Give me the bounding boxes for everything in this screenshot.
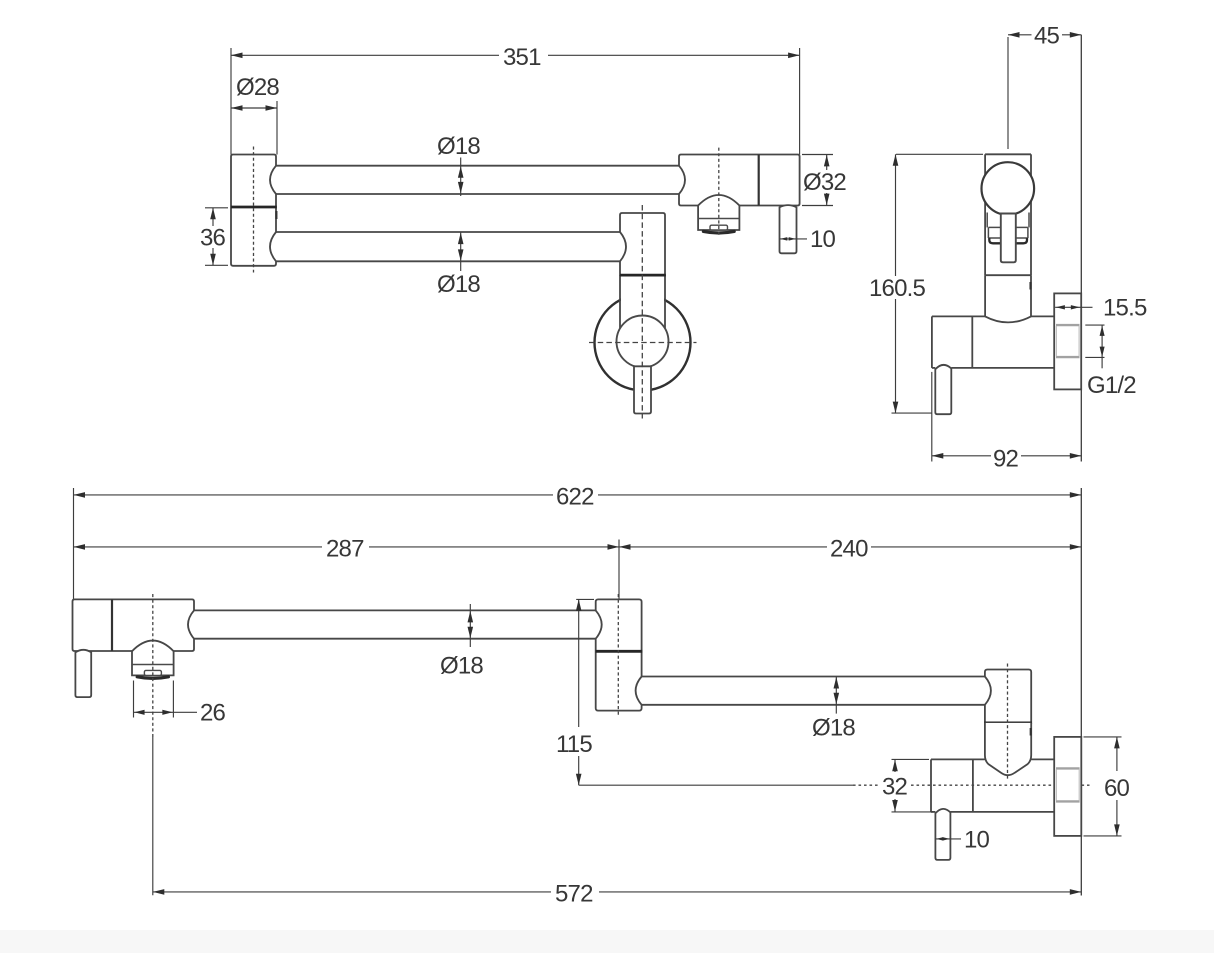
wall flange (front view) xyxy=(1054,737,1081,836)
svg-text:92: 92 xyxy=(993,446,1019,473)
dim 45 line xyxy=(1008,34,1081,36)
dim 60 line xyxy=(1116,737,1118,836)
dim Ø18 (lower arm) arrow xyxy=(835,677,837,714)
cartridge housing lines xyxy=(987,213,1029,228)
svg-text:Ø18: Ø18 xyxy=(440,653,483,680)
dim 10 line with leader xyxy=(780,238,808,240)
dim 45 arrows xyxy=(1008,32,1020,38)
dim 115 extension top xyxy=(576,598,594,600)
dim Ø18 upper arrow xyxy=(460,158,462,197)
svg-text:160.5: 160.5 xyxy=(869,275,926,302)
flange crosshair vertical xyxy=(641,205,643,419)
svg-text:351: 351 xyxy=(503,44,541,71)
right block centerline xyxy=(1007,664,1009,780)
valve connector shield xyxy=(985,723,1031,775)
lever collar dark base xyxy=(989,238,1000,243)
svg-text:G1/2: G1/2 xyxy=(1087,372,1136,399)
valve centerline horizontal (solid part) xyxy=(579,784,853,786)
svg-text:10: 10 xyxy=(964,827,990,854)
right block joint line (thick) xyxy=(984,722,1031,725)
dim 15.5 line with leader xyxy=(1055,306,1092,308)
outlet stub (side view) xyxy=(935,365,951,414)
flange crosshair horizontal xyxy=(589,342,697,344)
wall elbow block (top view) xyxy=(620,213,665,275)
left block centerline xyxy=(253,147,255,273)
svg-text:115: 115 xyxy=(556,731,592,758)
dim 622 extension left xyxy=(73,488,75,599)
bottom page grey strip xyxy=(0,930,1214,953)
spout head block (front view) xyxy=(73,599,195,651)
dim Ø32 arrows xyxy=(824,155,830,167)
dim Ø32 line xyxy=(826,155,828,206)
left swivel block xyxy=(231,155,276,266)
right block cap line xyxy=(758,155,760,206)
dim 572 line xyxy=(153,891,1082,893)
left block joint line (thick) xyxy=(231,206,277,209)
dim 26 arrows xyxy=(134,710,144,715)
wall flange (side view) xyxy=(1054,293,1081,389)
flange inner circle xyxy=(617,316,669,368)
right swivel block (front view) xyxy=(985,670,1031,723)
handle stem (top view) xyxy=(634,366,651,413)
dim 351 extension left xyxy=(230,48,232,155)
svg-text:Ø18: Ø18 xyxy=(437,133,480,160)
dim 115 arrows xyxy=(576,599,582,611)
extension to 572 xyxy=(152,737,154,895)
dim 622 line xyxy=(74,494,1082,496)
dim 240 line xyxy=(619,546,1081,548)
nozzle aerator dark band xyxy=(703,231,734,233)
dim 45 extension (body centerline) xyxy=(1007,37,1009,149)
dim 10 arrows xyxy=(780,237,787,240)
dim 32 line xyxy=(894,759,896,812)
spout nozzle (top view) xyxy=(698,195,739,230)
dim 622 arrows xyxy=(74,492,86,498)
svg-text:45: 45 xyxy=(1034,23,1060,50)
dim Ø18 lower arrow xyxy=(460,232,462,271)
svg-text:Ø32: Ø32 xyxy=(803,169,846,196)
dim 287 line xyxy=(74,546,620,548)
svg-text:60: 60 xyxy=(1104,775,1130,802)
middle elbow block (front view) xyxy=(596,599,642,710)
nozzle tab xyxy=(710,225,728,230)
dim 160.5 line xyxy=(895,154,897,413)
dim 36 line xyxy=(212,208,214,265)
body chamfer arc to valve xyxy=(985,316,1031,322)
nozzle ring line xyxy=(132,664,174,666)
svg-text:622: 622 xyxy=(556,484,594,511)
svg-text:Ø28: Ø28 xyxy=(236,74,279,101)
right block centerline xyxy=(718,148,720,237)
upper arm (front view) xyxy=(194,610,596,638)
wall line xyxy=(1080,35,1082,294)
svg-text:Ø18: Ø18 xyxy=(437,271,480,298)
body edge tick xyxy=(1029,282,1031,290)
nozzle ring line xyxy=(698,218,739,220)
wall line (front view) xyxy=(1080,488,1082,737)
valve body (front view) xyxy=(931,759,1054,812)
dim 160.5 extension top xyxy=(896,153,983,155)
dim 92 arrows xyxy=(932,453,944,459)
dim 60 extension lines xyxy=(1084,737,1122,836)
dim 92 extension left xyxy=(931,372,933,462)
dim 572 arrows xyxy=(153,889,165,895)
svg-text:Ø18: Ø18 xyxy=(812,715,855,742)
dim G1/2 extension lines xyxy=(1085,325,1104,357)
dim 160.5 arrows xyxy=(893,154,899,166)
lever pin (top view) xyxy=(780,205,797,253)
svg-text:287: 287 xyxy=(326,536,364,563)
dim 32 extension lines xyxy=(892,759,934,812)
dim 60 arrows xyxy=(1114,737,1120,749)
dim 351 line xyxy=(231,54,800,56)
dim 10 line with leader (front view) xyxy=(935,838,961,840)
dim G1/2 arrows xyxy=(1100,326,1105,336)
dim 92 line xyxy=(932,455,1082,457)
wall flange outer circle xyxy=(595,295,691,391)
svg-text:32: 32 xyxy=(882,774,908,801)
valve centerline horizontal (dotted) xyxy=(853,784,879,786)
spout nozzle (front view) xyxy=(132,641,174,676)
dim G1/2 line xyxy=(1101,325,1103,368)
dim Ø32 extension lines xyxy=(802,155,833,206)
svg-text:26: 26 xyxy=(200,700,226,727)
swivel ball (side view) xyxy=(982,162,1035,215)
dim Ø28 line xyxy=(231,107,277,109)
dim 15.5 arrows xyxy=(1056,305,1065,309)
elbow body over flange xyxy=(621,275,664,328)
middle block joint line (thick) xyxy=(596,650,643,653)
right spout head block xyxy=(679,155,800,206)
dim Ø18 (upper arm) arrow xyxy=(469,604,471,647)
nozzle tab xyxy=(144,670,161,675)
dim 240 arrows xyxy=(619,544,631,550)
outlet stub (front view) xyxy=(935,809,950,860)
upper arm tube xyxy=(276,166,679,194)
dim 115 line xyxy=(578,599,580,785)
lever collar xyxy=(988,227,1028,238)
dim 287 arrows xyxy=(74,544,86,550)
valve body (side view) xyxy=(932,316,1054,368)
dim 26 line with leader xyxy=(134,711,198,713)
head block cap line xyxy=(111,599,113,651)
dim 351 extension right xyxy=(799,48,801,155)
dim 351 arrows xyxy=(231,53,243,59)
dim 26 extension lines xyxy=(134,681,174,718)
dim Ø28 arrows xyxy=(231,105,243,111)
right block edge tick xyxy=(1030,728,1032,736)
svg-text:572: 572 xyxy=(555,881,593,908)
dim Ø28 extension right xyxy=(276,101,278,155)
flange thread lines (front view) xyxy=(1056,768,1080,801)
faucet body (side view) xyxy=(985,154,1031,316)
elbow joint line (thick) xyxy=(620,274,666,277)
svg-text:36: 36 xyxy=(200,225,226,252)
lower arm tube xyxy=(276,232,620,261)
lower arm (front view) xyxy=(642,677,985,705)
dim 287/240 shared extension xyxy=(618,540,620,600)
head block centerline xyxy=(152,594,154,737)
svg-text:10: 10 xyxy=(810,226,836,253)
left block edge tick xyxy=(275,211,277,219)
svg-text:15.5: 15.5 xyxy=(1103,295,1147,322)
svg-text:240: 240 xyxy=(830,536,868,563)
dim 36 arrows xyxy=(210,208,216,220)
elbow body side lines xyxy=(620,275,665,328)
dim 160.5 extension bottom xyxy=(892,412,932,414)
lever handle (side view) xyxy=(1001,214,1016,263)
middle block centerline xyxy=(617,594,619,717)
flange thread lines xyxy=(1056,325,1080,357)
dim 10 arrows xyxy=(936,837,943,840)
nozzle aerator dark band xyxy=(137,677,168,679)
dim 36 extension lines xyxy=(205,208,228,265)
lever pin (front view) xyxy=(75,650,91,697)
dim 32 arrows xyxy=(892,760,898,772)
